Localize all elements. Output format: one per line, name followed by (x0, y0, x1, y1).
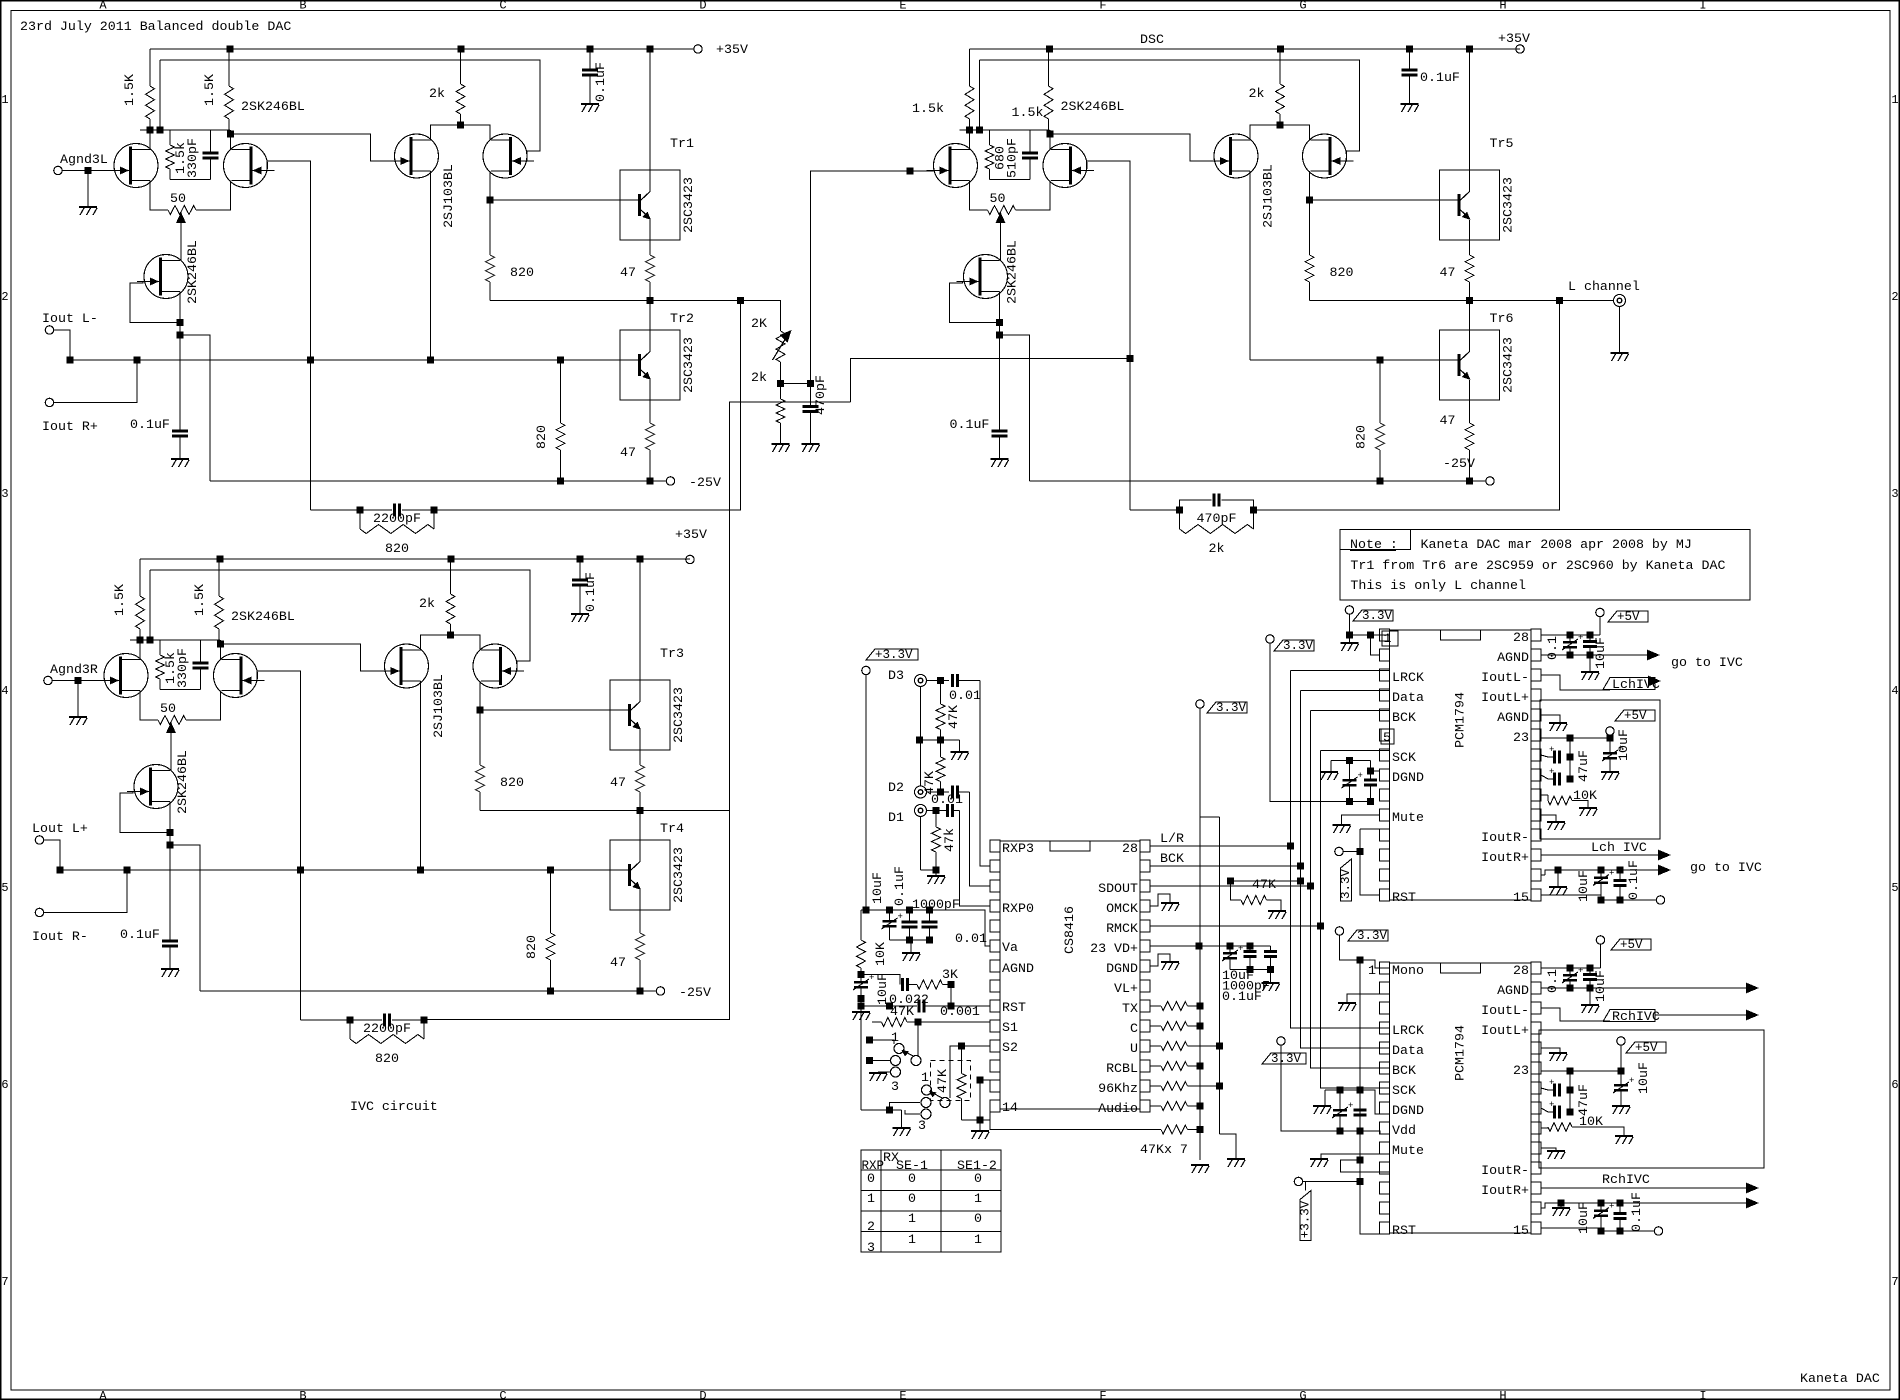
svg-text:0.01: 0.01 (949, 688, 981, 703)
svg-text:Agnd3R: Agnd3R (50, 662, 98, 677)
[blk2] wire Q2 drain (220, 640, 222, 660)
junction 10K bottom (858, 971, 865, 978)
svg-text:2SK246BL: 2SK246BL (185, 240, 200, 304)
svg-text:E: E (899, 1389, 906, 1400)
wire U3 AGND arrow (1541, 987, 1752, 989)
svg-text:+: + (1549, 1100, 1554, 1110)
svg-text:2SJ103BL: 2SJ103BL (1261, 164, 1276, 228)
svg-text:Agnd3L: Agnd3L (60, 152, 108, 167)
ground U3 out row (1560, 1203, 1562, 1207)
[blk1] wire collector Tr1 (649, 49, 651, 191)
switch SE1-2 pole 1 (922, 1085, 932, 1095)
svg-text:47k: 47k (942, 828, 957, 852)
svg-text:0.1uF: 0.1uF (1626, 860, 1641, 900)
[blk3] wire Q3 source node (999, 292, 1001, 336)
svg-text:47K: 47K (946, 705, 961, 729)
wire bus LRCK (1291, 671, 1390, 1029)
svg-text:1: 1 (921, 1070, 929, 1085)
wire Va to pin (940, 910, 991, 946)
[blk3] wire Q1 source (970, 181, 988, 211)
ground DGND (1161, 961, 1179, 963)
svg-text:F: F (1099, 0, 1106, 13)
[blk1] wire emitter Tr2 (649, 380, 651, 423)
svg-text:2K: 2K (751, 316, 767, 331)
[blk3] wire Q1 drain (969, 130, 971, 150)
svg-text:820: 820 (534, 425, 549, 449)
svg-text:D: D (699, 0, 706, 13)
capacitor 0.1uF Va (909, 910, 911, 922)
svg-text:0.1uF: 0.1uF (1629, 1192, 1644, 1232)
svg-text:D3: D3 (888, 668, 904, 683)
wire U3 Mute gnd (1321, 1154, 1390, 1158)
ground pullup rail (1191, 1164, 1209, 1166)
[blk2] wire pot right to Q2 source (186, 691, 221, 721)
wire 47K pull bottom (962, 1119, 981, 1121)
[blk3] junction on +35V rail (1277, 46, 1284, 53)
wire sw1 pole1 (870, 1040, 895, 1044)
svg-text:2k: 2k (751, 370, 767, 385)
wire +5V U3 (1600, 944, 1602, 968)
svg-text:Audio: Audio (1098, 1101, 1138, 1116)
wire D2 to RXP pin (970, 792, 991, 886)
[blk3] resistor 820 lower (1379, 360, 1381, 423)
svg-text:4: 4 (1, 684, 8, 698)
svg-text:RST: RST (1002, 1000, 1026, 1015)
svg-text:0.1uF: 0.1uF (1420, 70, 1460, 85)
svg-text:3.3V: 3.3V (1362, 609, 1393, 623)
capacitor 47uF a (1548, 756, 1553, 758)
[blk3] JFET Q4 2SJ103BL (1214, 134, 1258, 178)
power flag +3.3V RST vert (1300, 1191, 1311, 1241)
[blk1] terminal Iout R+ (45, 398, 53, 406)
wire U3 IoutL- (1541, 1008, 1610, 1021)
svg-text:IoutR+: IoutR+ (1481, 1183, 1529, 1198)
svg-text:2SC3423: 2SC3423 (1501, 177, 1516, 233)
resistor 10K U2 (1541, 794, 1548, 796)
svg-text:820: 820 (1330, 265, 1354, 280)
switch SE1-2 common (940, 1098, 950, 1108)
terminal +3.3V main (862, 666, 870, 674)
svg-text:AGND: AGND (1497, 983, 1529, 998)
wire RST flag link (1305, 1182, 1307, 1191)
resistor 47K RMCK (1231, 880, 1301, 882)
[blk3] capacitor 0.1uF bypass (1409, 49, 1411, 70)
svg-text:14: 14 (1002, 1100, 1018, 1115)
svg-text:go to IVC: go to IVC (1690, 860, 1762, 875)
ground 10uF U3b (1612, 1105, 1630, 1107)
wire divider node D3 (920, 739, 960, 741)
svg-text:3.3V: 3.3V (1216, 701, 1247, 715)
[blk2] resistor R3 1.5k (159, 640, 161, 655)
svg-text:0.01: 0.01 (955, 931, 987, 946)
svg-text:IoutL-: IoutL- (1481, 1003, 1529, 1018)
svg-text:820: 820 (524, 935, 539, 959)
resistor 47K row 96Khz (1150, 1085, 1161, 1087)
resistor 3K (917, 980, 943, 989)
svg-text:3K: 3K (942, 967, 958, 982)
capacitor 0.001 (918, 1000, 921, 1013)
terminal U3 out (1654, 1227, 1662, 1235)
switch SE-1 arrow (905, 1052, 914, 1057)
[blk2] wire Q2 gate to 2SJ gate (243, 671, 301, 1020)
ground Va caps (910, 940, 912, 952)
svg-text:This is only L channel: This is only L channel (1350, 578, 1526, 593)
svg-text:10K: 10K (873, 942, 888, 966)
svg-text:1.5K: 1.5K (202, 74, 217, 106)
wire 3.3V U3b (1281, 1045, 1360, 1131)
svg-text:PCM1794: PCM1794 (1452, 1025, 1467, 1081)
[blk1] wire feedback left (311, 509, 361, 511)
svg-text:10uF: 10uF (1576, 870, 1591, 902)
[blk2] transistor Tr3 2SC3423 (610, 680, 670, 750)
capacitor 0.01 D1 (946, 804, 949, 817)
svg-text:B: B (299, 0, 306, 13)
[blk3] capacitor 0.1uF input (999, 335, 1001, 431)
svg-text:-25V: -25V (689, 475, 721, 490)
wire RMCK net (1150, 925, 1321, 927)
[blk1] junction on +35V rail (227, 46, 234, 53)
svg-text:7: 7 (1, 1275, 8, 1289)
wire D1 to RXP0 pin (960, 811, 991, 907)
resistor 47K pull (961, 1046, 963, 1074)
[blk3] junction on +35V rail (1046, 46, 1053, 53)
svg-text:+: + (1609, 869, 1614, 879)
svg-text:Lout L+: Lout L+ (32, 821, 88, 836)
capacitor 0.1 U3 DGND (1359, 1090, 1361, 1110)
[blk2] resistor 47 upper (636, 765, 645, 792)
wire blk2 output to blk3 node (730, 402, 851, 810)
wire OMCK gnd (1150, 894, 1170, 906)
svg-text:2SC3423: 2SC3423 (681, 177, 696, 233)
resistor 10K (860, 910, 862, 940)
wire SE2 rail (979, 1080, 981, 1130)
svg-text:A: A (99, 0, 107, 13)
capacitor 47uF U3a (1548, 1089, 1553, 1091)
svg-text:820: 820 (375, 1051, 399, 1066)
[blk1] resistor feedback 820 (359, 510, 361, 529)
[blk2] wire Q5 source to Tr base (479, 681, 481, 710)
capacitor 47uF U3b (1548, 1111, 1553, 1113)
wire U2 pin10 gnd (1541, 815, 1556, 821)
svg-text:H: H (1499, 0, 1506, 13)
svg-text:3: 3 (867, 1240, 875, 1255)
svg-text:3: 3 (918, 1118, 926, 1133)
[blk1] wire Q4 source down to bus (430, 171, 432, 360)
wire D1 node (927, 810, 947, 812)
svg-text:SDOUT: SDOUT (1098, 881, 1138, 896)
[blk2] wire R2 to 2SJ103BL gate (221, 644, 381, 671)
svg-text:Iout R+: Iout R+ (42, 419, 98, 434)
svg-text:+: + (1238, 944, 1243, 954)
terminal D2 (915, 786, 927, 798)
resistor 10K U3 (1541, 1127, 1548, 1129)
svg-text:L/R: L/R (1160, 831, 1184, 846)
[blk2] junction on +35V rail (577, 556, 584, 563)
svg-text:LRCK: LRCK (1392, 670, 1424, 685)
[blk3] resistor R1 1.5K (969, 49, 971, 86)
capacitor 47uF b (1548, 778, 1553, 780)
svg-text:3: 3 (891, 1079, 899, 1094)
wire S1 row (918, 1021, 990, 1023)
wire +3.3V down-rail (865, 675, 867, 910)
svg-text:470pF: 470pF (1197, 511, 1237, 526)
switch SE1-2 pole 2 (921, 1098, 931, 1108)
svg-text:2SK246BL: 2SK246BL (175, 750, 190, 814)
box Lch IVC (1540, 700, 1660, 839)
[blk1] wire -25V rail (210, 480, 666, 482)
[blk2] wire 2k node to 2SJ drains (421, 635, 481, 651)
svg-text:10uF: 10uF (870, 872, 885, 904)
svg-text:IoutR-: IoutR- (1481, 1163, 1529, 1178)
svg-text:10uF: 10uF (875, 973, 890, 1005)
switch SE1-2 arrow (932, 1093, 942, 1099)
[blk3] resistor 2k (1279, 49, 1281, 84)
svg-text:47uF: 47uF (1576, 1084, 1591, 1116)
svg-text:28: 28 (1513, 630, 1529, 645)
svg-text:330pF: 330pF (175, 648, 190, 688)
[blk2] wire output node (480, 810, 730, 812)
[blk3] wire -25V rail (1030, 480, 1486, 482)
svg-text:Mute: Mute (1392, 810, 1424, 825)
IC U1 CS8416 (1000, 841, 1140, 1109)
power flag 3.3V U3b (1277, 1037, 1285, 1045)
arrow U3 IoutR+ 1 (1746, 1183, 1759, 1194)
svg-text:1.5K: 1.5K (122, 74, 137, 106)
[blk2] wire to -25V rail drop (170, 845, 200, 991)
terminal D3 (915, 675, 927, 687)
[blk3] resistor R2 1.5K (1048, 49, 1050, 86)
wire Va caps gnd (890, 939, 930, 941)
arrow go to IVC 1 (1647, 650, 1660, 661)
wire U2 IoutL- (1541, 675, 1610, 690)
svg-text:D2: D2 (888, 780, 904, 795)
svg-text:Kaneta DAC mar 2008 apr 2008 b: Kaneta DAC mar 2008 apr 2008 by MJ (1421, 537, 1692, 552)
terminal D1 (915, 805, 927, 817)
[blk3] wire 2k node to 2SJ drains (1250, 125, 1310, 141)
[blk1] wire pot right to Q2 source (196, 181, 231, 211)
wire left rail sw (860, 1012, 862, 1110)
svg-text:820: 820 (385, 541, 409, 556)
wire D3 node (927, 680, 950, 682)
svg-text:2SJ103BL: 2SJ103BL (431, 674, 446, 738)
resistor 47K S1 (872, 1021, 882, 1023)
svg-text:47uF: 47uF (1576, 750, 1591, 782)
svg-text:1: 1 (908, 1232, 916, 1247)
svg-text:2: 2 (1, 290, 8, 304)
svg-text:+5V: +5V (1635, 1041, 1658, 1055)
svg-text:OMCK: OMCK (1106, 901, 1138, 916)
capacitor 0.1uF VD (1270, 946, 1272, 952)
svg-text:Tr2: Tr2 (670, 311, 694, 326)
wire U3 AGND2 gnd (1541, 1048, 1560, 1052)
[blk1] wire Q2 drain (230, 130, 232, 150)
capacitor 10uF U3 (1589, 968, 1591, 975)
power flag 3.3V U2b (1266, 635, 1274, 643)
wire U2 IoutR- (1540, 835, 1541, 839)
wire U3 DGND pin (1360, 1090, 1390, 1114)
svg-text:0: 0 (974, 1171, 982, 1186)
svg-text:F: F (1099, 1389, 1106, 1400)
capacitor 1000pF VD (1249, 946, 1251, 952)
svg-text:23: 23 (1513, 1063, 1529, 1078)
[blk3] wire emitter Tr6 (1469, 380, 1471, 423)
ground under L channel (1619, 307, 1621, 353)
svg-text:23: 23 (1513, 730, 1529, 745)
[blk1] JFET Q4 2SJ103BL (395, 134, 439, 178)
svg-text:IoutL-: IoutL- (1481, 670, 1529, 685)
capacitor 10uF U2 DGND (1349, 761, 1351, 781)
[blk3] ground under 0.1uF (991, 458, 1009, 460)
svg-text:820: 820 (500, 775, 524, 790)
terminal U2 out (1656, 896, 1664, 904)
[blk3] wire pot right to Q2 source (1016, 181, 1051, 211)
resistor 47K row U (1150, 1045, 1161, 1047)
svg-text:AGND: AGND (1002, 961, 1034, 976)
[blk1] terminal Agnd3L (54, 166, 62, 174)
wire blk1 output to coupling (741, 301, 781, 332)
[blk1] resistor 47 lower (646, 423, 655, 450)
capacitor 0.022 (901, 978, 904, 991)
[blk2] junction on +35V rail (217, 556, 224, 563)
svg-text:+: + (1629, 1076, 1634, 1086)
wire 3.3V U2b (1270, 643, 1371, 802)
[blk3] wire Q2 drain (1049, 130, 1051, 150)
power flag 3.3V U3 (1335, 927, 1343, 935)
capacitor 10uF U2 (1589, 635, 1591, 642)
wire U3 pin10 gnd (1541, 1148, 1556, 1150)
svg-text:I: I (1699, 0, 1706, 13)
svg-text:RST: RST (1392, 1223, 1416, 1238)
[blk3] JFET Q3 2SK246BL (cascode) (964, 255, 1008, 299)
[blk2] junction bus (297, 867, 304, 874)
[blk2] capacitor 0.1uF bypass (579, 559, 581, 580)
[blk3] wire RC bottom (990, 179, 1031, 181)
[blk1] resistor 820 lower (560, 360, 562, 423)
svg-text:2k: 2k (1209, 541, 1225, 556)
[blk2] resistor R2 1.5K (218, 559, 220, 596)
svg-text:0.1uF: 0.1uF (950, 417, 990, 432)
svg-text:2: 2 (867, 1219, 875, 1234)
[blk2] ground at input (77, 681, 79, 717)
[blk3] wire emitter Tr5 (1469, 220, 1471, 255)
arrow U3 AGND (1746, 983, 1759, 994)
wire U2 DGND node (1331, 760, 1371, 762)
svg-text:PCM1794: PCM1794 (1452, 692, 1467, 748)
wire U3 pin2 gnd (1347, 994, 1390, 1002)
svg-text:3.3V: 3.3V (1357, 929, 1388, 943)
ground 10K U3 (1615, 1135, 1633, 1137)
wire L/R net (1150, 845, 1291, 847)
resistor 2k to ground (776, 399, 785, 423)
[blk3] wire feedback left (1130, 509, 1180, 511)
svg-text:510pF: 510pF (1005, 138, 1020, 178)
[blk2] ground under bypass (571, 613, 589, 615)
svg-text:Mute: Mute (1392, 1143, 1424, 1158)
power flag 3.3V RST vert (1341, 859, 1352, 901)
[blk2] terminal Lout L+ (35, 836, 43, 844)
ground 10K U2 (1579, 807, 1597, 809)
[blk3] resistor 47 lower (1465, 423, 1474, 450)
svg-text:0.1uF: 0.1uF (120, 927, 160, 942)
[blk2] wire Q1 source (140, 691, 158, 721)
wire U2 AGND2 gnd (1541, 715, 1560, 722)
[blk3] JFET Q5 2SJ103BL (mirrored) (1303, 134, 1347, 178)
svg-text:+: + (1549, 1078, 1554, 1088)
wire BCK net (1150, 865, 1301, 867)
svg-text:1: 1 (1384, 631, 1392, 646)
svg-text:Kaneta DAC: Kaneta DAC (1800, 1371, 1880, 1386)
svg-text:0: 0 (908, 1191, 916, 1206)
power flag +5V U3 (1596, 936, 1604, 944)
wire sw2 pole2 (890, 1103, 921, 1111)
svg-text:Tr4: Tr4 (660, 821, 684, 836)
[blk3] transistor Tr5 2SC3423 (1440, 170, 1500, 240)
wire VD caps gnd (1230, 969, 1271, 971)
resistor 47K row RCBL (1150, 1065, 1161, 1067)
switch SE-1 pole 3 (891, 1067, 901, 1077)
svg-text:E: E (899, 0, 906, 13)
[blk1] capacitor C1 330pF (210, 130, 212, 153)
[blk2] wire feedback left (301, 1019, 351, 1021)
capacitor 470pF (810, 384, 812, 407)
resistor 47K D3 upper (940, 681, 942, 705)
wire RC row (861, 975, 900, 985)
svg-text:5: 5 (1, 881, 8, 895)
resistor 47K row TX (1150, 1005, 1161, 1007)
power flag +5V U2 (1596, 608, 1604, 616)
[blk1] wire Q3 source node (179, 292, 181, 336)
arrow U3 IoutR+ 2 (1746, 1198, 1759, 1209)
svg-text:50: 50 (160, 701, 176, 716)
wire U3 IoutR+ arrow (1541, 1187, 1752, 1189)
svg-text:2200pF: 2200pF (373, 511, 421, 526)
wire left rail bottom (860, 999, 862, 1012)
[blk3] resistor R3 680 (989, 130, 991, 145)
svg-text:IoutR-: IoutR- (1481, 830, 1529, 845)
ground 47K RMCK (1268, 910, 1286, 912)
svg-text:Tr1 from Tr6 are 2SC959 or 2SC: Tr1 from Tr6 are 2SC959 or 2SC960 by Kan… (1350, 558, 1725, 573)
[blk3] wire R2 to 2SJ103BL gate (1050, 134, 1210, 161)
[blk3] JFET Q1 2SK246BL (input) (934, 144, 978, 188)
[blk2] wire emitter Tr4 (639, 890, 641, 933)
[blk1] capacitor feedback 2200pF (360, 509, 392, 511)
capacitor 0.01 D2 (951, 786, 954, 799)
capacitor 0.1uF U3 (1569, 968, 1571, 974)
capacitor 0.1uF U3 out (1619, 1203, 1621, 1214)
[blk2] wire emitter Tr3 (639, 730, 641, 765)
[blk2] resistor R1 1.5K (139, 559, 141, 596)
wire U2 Mute gnd (1342, 815, 1380, 824)
capacitor 10uF U3b (1620, 1071, 1622, 1084)
svg-text:10uF: 10uF (1616, 729, 1631, 761)
wire +5V U2 (1599, 617, 1601, 635)
svg-text:A: A (99, 1389, 107, 1400)
[blk3] potentiometer 50 (988, 206, 1016, 215)
svg-text:Tr1: Tr1 (670, 136, 694, 151)
svg-text:B: B (299, 1389, 306, 1400)
power flag +5V U3b (1617, 1037, 1625, 1045)
ground U2 out row (1557, 870, 1559, 886)
[blk2] wire Q3 gate loop (120, 792, 170, 833)
svg-text:2SC3423: 2SC3423 (681, 337, 696, 393)
svg-text:C: C (1130, 1021, 1138, 1036)
[blk3] junction on +35V rail (1466, 46, 1473, 53)
ground SE2 rail (971, 1130, 989, 1132)
[blk2] resistor 820 upper (479, 710, 481, 765)
wire sw1 pole3 gnd (878, 1071, 891, 1073)
svg-text:7: 7 (1891, 1275, 1898, 1289)
table RX selection (861, 1150, 1001, 1252)
